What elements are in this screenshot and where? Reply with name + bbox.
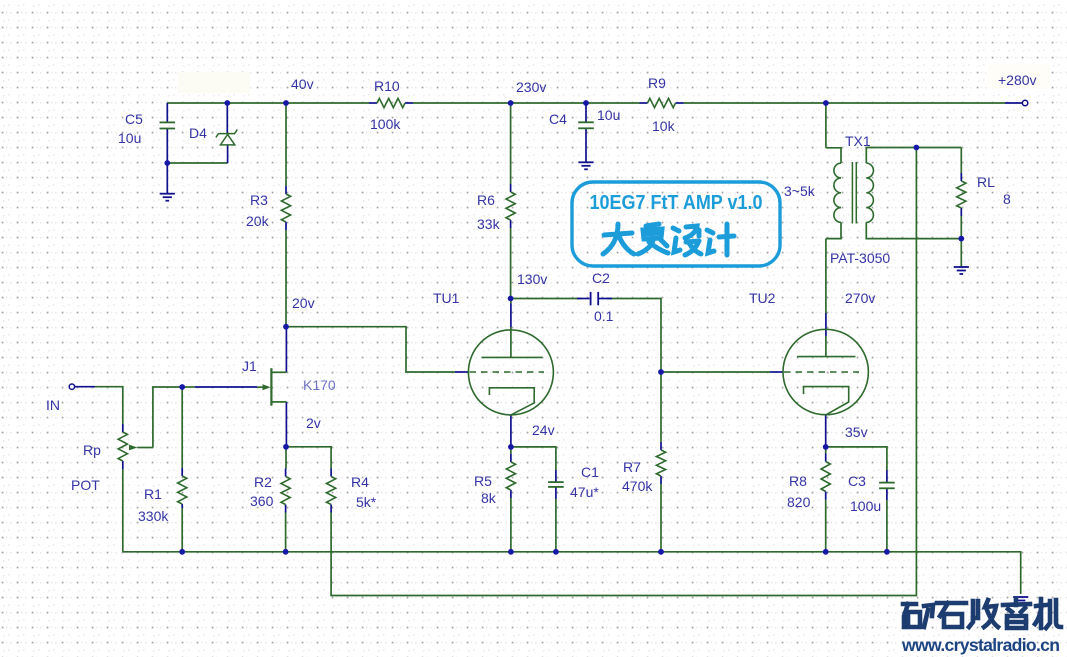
junction R6 top [508,100,514,106]
wire top rail seg2 [413,102,640,104]
wire TX1 primary top lead [826,148,841,163]
wire 2v node to R4 [286,447,331,469]
wire R6 bottom to 130v node [510,228,512,299]
junction TX1 feed [823,100,829,106]
transformer TX1 primary winding [834,163,841,222]
svg-text:8k: 8k [481,490,497,506]
pin TU1 grid [455,371,469,373]
resistor R7 [656,450,665,476]
pin J1 drain riser [285,327,287,373]
svg-text:C2: C2 [592,270,610,286]
pin R7 top [660,442,662,450]
resistor R3 [281,194,290,222]
wire IN to Rp top [95,387,123,424]
pin C4 ground lead [585,128,587,162]
pin C5 ground lead [166,163,168,194]
wire RL node to ground [960,239,962,267]
svg-text:330k: 330k [138,508,169,524]
pin TU2 grid [770,371,783,373]
junction 40v node [283,100,289,106]
svg-text:10k: 10k [652,118,676,134]
wire R1 bottom lead [181,508,183,552]
wire R3 top lead [285,103,287,186]
svg-text:R9: R9 [648,75,666,91]
pin C5 bottom [166,129,168,164]
transformer TX1 secondary winding [866,163,873,222]
transformer TX1 core [852,162,856,224]
svg-text:100k: 100k [370,116,401,132]
pin R6 top [510,184,512,192]
junction R2 ground [283,549,289,555]
svg-text:3~5k: 3~5k [784,183,816,199]
junction 2v source node [283,444,289,450]
svg-text:24v: 24v [532,422,555,438]
ground under C5 [160,194,175,201]
svg-text:R10: R10 [374,78,400,94]
resistor R9 [648,98,676,107]
wire R8 top lead [825,447,827,454]
junction C3 ground [884,549,890,555]
svg-text:C3: C3 [848,473,866,489]
pin R9 left [640,102,648,104]
svg-text:10u: 10u [597,107,620,123]
wire TX1 secondary top to RL [866,148,961,164]
wire TX1 primary bottom lead [826,222,841,238]
pin RL bottom [960,208,962,216]
junction 20v drain node [283,324,289,330]
junction C1 ground [553,549,559,555]
pin Rp bottom [122,461,124,469]
svg-text:35v: 35v [845,424,868,440]
svg-text:470k: 470k [622,478,653,494]
wire J1 drain node to TU1 grid [286,327,455,372]
wire TX1 to TU2 plate [825,239,827,313]
svg-text:PAT-3050: PAT-3050 [830,250,890,266]
svg-text:20k: 20k [246,213,270,229]
op-amp TU2 triode tube [783,329,868,415]
svg-text:2v: 2v [306,415,321,431]
pin R3 top [285,186,287,194]
resistor R6 [506,192,515,220]
wire rail to TX1 primary [825,103,827,148]
wire Rp wiper shaft [138,447,153,449]
wire R5 bottom lead [510,498,512,552]
wire R2 top lead [285,447,287,469]
svg-text:40v: 40v [291,76,314,92]
wire C3 bottom lead [886,500,888,552]
svg-text:270v: 270v [845,290,875,306]
svg-text:RL: RL [977,174,995,190]
pin D4 cathode [226,103,228,134]
pin TU1 cathode [510,415,512,447]
pin J1 source riser [285,402,287,447]
wire gate node to J1 [182,386,195,388]
pin R3 bottom [285,222,287,230]
pin RL top [960,173,962,181]
pin R6 bottom [510,220,512,228]
pin R8 top [825,454,827,462]
resistor R1 [178,476,187,504]
junction R1 ground [179,549,185,555]
pin R1 top [181,468,183,476]
zener diode D4 [216,130,237,145]
pin R7 bottom [660,476,662,484]
svg-text:www.crystalradio.cn: www.crystalradio.cn [901,635,1060,655]
junction TU2 grid node [658,369,664,375]
capacitor C1 [548,482,564,487]
wire TX1 secondary bottom [866,222,961,238]
node IN terminal [69,384,74,389]
svg-text:0.1: 0.1 [594,308,614,324]
svg-text:20v: 20v [292,295,315,311]
wire TU2 plate lead inner [825,336,827,357]
wire 130v node to C2 [511,298,581,300]
svg-text:5k*: 5k* [356,494,377,510]
svg-text:R3: R3 [250,192,268,208]
wire 35v node to C3 [826,447,887,470]
svg-text:360: 360 [250,493,274,509]
svg-text:J1: J1 [242,358,257,374]
wire RL bottom lead [960,216,962,239]
pin R9 right [676,102,684,104]
pin R1 bottom [181,504,183,508]
wire top rail seg3 [684,102,1006,104]
wire top rail seg1 [167,102,369,104]
stamp chinese brush text [603,224,734,255]
wire R3 bottom to 20v node [285,230,287,327]
pin D4 anode [227,145,229,163]
transistor Q J1 K170 JFET [257,368,286,406]
svg-text:C4: C4 [549,111,567,127]
svg-text:230v: 230v [516,79,546,95]
pin R2 bottom [285,505,287,513]
svg-text:R6: R6 [477,192,495,208]
pin Rp top [122,424,124,432]
junction C4 top [583,100,589,106]
junction R7 ground [658,549,664,555]
pin C1 bottom [555,487,557,499]
junction gate node [179,384,185,390]
junction R8 ground [823,549,829,555]
resistor RL [957,181,966,208]
svg-text:K170: K170 [303,377,336,393]
watermark logo text (kuangshi shouyinji) [903,599,1061,628]
ground under C4 [578,162,593,169]
svg-text:C1: C1 [581,464,599,480]
wire bottom ground rail [123,552,1021,594]
svg-text:R1: R1 [144,486,162,502]
junction output feedback node [914,145,920,151]
pin +280v terminal [1005,102,1022,104]
pin R4 bottom [330,505,332,513]
wire R1 top lead [181,387,183,468]
capacitor C2 [591,292,599,305]
svg-text:47u*: 47u* [570,484,599,500]
erased patch top-right [988,64,1050,89]
wire wiper up to gate node [153,387,182,448]
svg-text:D4: D4 [189,125,207,141]
wire R6 top lead [510,103,512,184]
resistor R10 [377,98,405,107]
svg-text:R5: R5 [474,473,492,489]
svg-text:130v: 130v [517,271,547,287]
svg-text:R7: R7 [623,459,641,475]
capacitor C5 [160,122,176,128]
node +280v terminal [1022,100,1027,105]
wire Rp bottom lead [122,469,124,552]
pin C1 top [555,470,557,482]
pin R10 right [405,102,413,104]
wire TU1 plate lead inner [510,327,512,357]
svg-text:C5: C5 [125,111,143,127]
pin TU2 plate [825,313,827,336]
ground under RL [954,267,969,274]
pin R4 top [330,469,332,477]
ground bottom right [1013,597,1028,601]
resistor R5 [506,462,515,490]
pin C3 top [886,470,888,483]
svg-text:POT: POT [71,477,100,493]
capacitor C4 [578,122,594,128]
junction D4 top [224,100,230,106]
wire C5 to D4 bottom [167,162,227,164]
svg-text:IN: IN [46,397,60,413]
junction 24v cathode node [508,444,514,450]
svg-text:TX1: TX1 [845,133,871,149]
wire TU1 plate stub [510,299,512,304]
svg-text:100u: 100u [850,498,881,514]
junction 130v node [508,296,514,302]
svg-text:TU2: TU2 [749,290,776,306]
svg-text:820: 820 [787,494,811,510]
wire C2 to R7 top [607,299,661,443]
wire R2 bottom lead [285,513,287,552]
resistor R4 [327,477,336,505]
svg-text:10EG7 FtT AMP v1.0: 10EG7 FtT AMP v1.0 [590,192,763,214]
junction C5-D4 [164,160,170,166]
pin R5 bottom [510,490,512,498]
svg-text:TU1: TU1 [433,290,460,306]
pin C5 top [166,103,168,122]
junction RL bottom node [958,236,964,242]
svg-text:10u: 10u [118,130,141,146]
capacitor C3 [879,483,895,489]
pin TU1 plate [510,304,512,328]
junction 35v cathode node [823,444,829,450]
wire RL top lead [960,148,962,174]
pin R2 top [285,469,287,477]
pin C2 right [599,298,612,300]
potentiometer Rp [118,432,127,461]
pin R10 left [369,102,377,104]
pin R8 bottom [825,492,827,500]
svg-text:Rp: Rp [83,442,101,458]
junction R5 ground [508,549,514,555]
svg-text:33k: 33k [477,216,501,232]
svg-text:R4: R4 [351,474,369,490]
wire feedback R4 to output [331,148,916,596]
pin C3 bottom [886,488,888,500]
pin R5 top [510,454,512,462]
wire R8 bottom lead [825,500,827,552]
stamp box 10EG7 FtT AMP [572,182,780,266]
erased patch top-left [178,72,250,93]
wire to TU2 grid [661,371,770,373]
wire R7 bottom lead [660,484,662,552]
svg-text:8: 8 [1003,191,1011,207]
pin C2 left [577,298,590,300]
pin IN terminal [75,386,96,388]
wire R5 top lead [510,447,512,454]
resistor R8 [821,462,830,492]
pin J1 gate [195,386,257,388]
resistor R2 [281,477,290,505]
pin C4 top [585,103,587,122]
pin TU2 cathode [825,415,827,447]
op-amp TU1 triode tube [468,330,553,415]
svg-text:R8: R8 [789,473,807,489]
wire C1 bottom lead [555,499,557,552]
wire 24v node to C1 [511,447,556,470]
svg-text:R2: R2 [254,474,272,490]
svg-text:+280v: +280v [998,72,1037,88]
potentiometer Rp wiper arrow [129,445,138,451]
